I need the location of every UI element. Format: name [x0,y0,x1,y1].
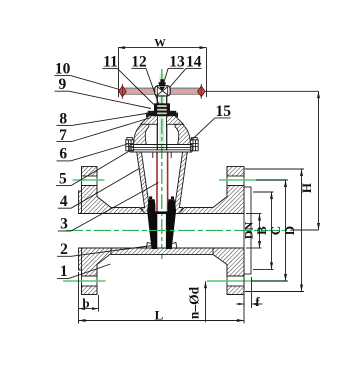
handwheel bar right [170,88,199,95]
leader 15 [191,118,215,141]
svg-text:10: 10 [55,61,71,78]
leader 7 [72,118,151,142]
green centerline vertical [161,69,163,261]
handwheel left end cap [119,84,126,99]
leader 14 [170,68,187,87]
gland flange left [141,116,158,125]
svg-text:2: 2 [60,241,68,258]
right flange top ear [227,167,244,177]
bonnet flange [130,145,192,153]
body neck wall right [173,152,188,214]
svg-text:f: f [255,294,260,309]
H bottom connector [291,229,319,231]
green bolt centerline bottom-left [63,280,106,282]
C dim [252,180,288,281]
backseat recess lines [152,152,154,158]
L dim [79,320,245,322]
green bolt centerline top-left [73,179,105,181]
svg-text:W: W [154,37,166,49]
svg-text:9: 9 [59,76,67,93]
wedge lug left [149,196,152,199]
leader 8 [72,113,153,126]
leader 10 [71,76,120,90]
stem upper black lines [156,96,158,151]
packing rings [157,103,167,116]
f dim [243,277,245,308]
B dim [253,192,274,269]
stem red lines [156,153,158,213]
wedge left half [147,199,157,249]
leader 2 [71,246,153,257]
svg-text:11: 11 [103,54,118,71]
left flange bolt gap lines [81,167,83,214]
hub U14 (handwheel hub with cross) [155,86,170,96]
leader 6 [71,144,128,161]
raised face right [244,187,251,274]
svg-text:12: 12 [131,54,147,71]
body neck wall left [137,152,152,214]
DN dim [246,214,262,249]
svg-text:1: 1 [60,263,68,280]
pipe bottom wall band [111,248,213,255]
green bolt centerline bottom-right [207,280,286,282]
leader 11 [117,68,154,104]
svg-text:4: 4 [60,193,68,210]
packing box posts [154,103,170,116]
svg-text:C: C [268,226,283,235]
left flange lower block [79,248,112,276]
svg-text:6: 6 [59,145,67,162]
stem nut [158,79,166,91]
handwheel right end cap [198,84,205,99]
svg-text:3: 3 [60,216,68,233]
left flange top ear [82,167,98,177]
wire W dim line [118,47,207,49]
svg-text:B: B [254,226,269,235]
leader 5 [71,150,131,186]
right flange upper block [179,186,244,214]
wedge right half [166,199,176,249]
gland flange right [167,116,184,125]
svg-text:15: 15 [216,103,232,120]
bonnet swing bolt right (item 15) [190,138,198,151]
green bolt centerline top-right [219,179,286,181]
pale green stem fill [159,74,164,150]
leader 3 [71,183,159,232]
svg-text:b: b [82,296,89,311]
svg-text:14: 14 [186,54,202,71]
left flange bottom ear [82,286,98,295]
leader 1 [69,264,111,279]
wedge stem crossbar [155,211,167,214]
n-Ød leader [205,281,207,322]
wedge lug right [171,196,174,199]
svg-text:D: D [282,226,297,235]
bonnet neck band right [175,124,190,144]
bonnet swing bolt left [126,138,134,151]
right flange bottom ear [227,286,244,295]
D dim [245,169,304,292]
right flange lower block [213,248,244,276]
leader 12 [146,68,159,103]
seat ring left [146,243,151,250]
svg-text:L: L [155,308,164,323]
handwheel bar left [125,88,156,95]
green pipe centerline [66,229,291,231]
bore top line [82,213,147,215]
svg-text:n–Ød: n–Ød [187,286,202,319]
b dim [98,295,100,312]
W arrows [118,46,207,49]
left flange upper block [79,186,146,214]
H dim line [318,91,320,230]
svg-text:5: 5 [59,171,67,188]
seat ring right [172,243,177,250]
W extension lines [118,48,120,97]
node H top connector [206,90,319,92]
bonnet neck band left [134,124,149,144]
gland eye bolts [146,111,178,119]
leader 4 [71,168,140,208]
bore bottom line [79,247,245,249]
svg-text:13: 13 [169,54,185,71]
leader 9 [69,91,151,108]
leader 13 [164,68,168,82]
